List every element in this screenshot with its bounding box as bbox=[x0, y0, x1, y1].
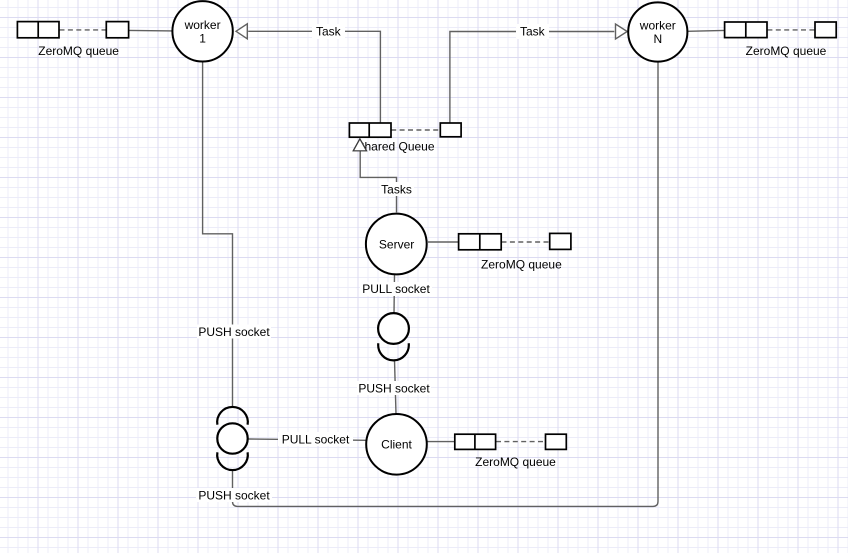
svg-text:worker: worker bbox=[184, 18, 221, 32]
svg-text:ZeroMQ queue: ZeroMQ queue bbox=[38, 44, 119, 58]
svg-text:1: 1 bbox=[199, 31, 206, 45]
svg-text:worker: worker bbox=[639, 19, 676, 33]
svg-text:ZeroMQ queue: ZeroMQ queue bbox=[475, 455, 556, 469]
svg-text:Server: Server bbox=[379, 237, 414, 251]
svg-text:PUSH socket: PUSH socket bbox=[358, 382, 430, 396]
svg-text:Client: Client bbox=[381, 438, 412, 452]
svg-text:PULL socket: PULL socket bbox=[362, 282, 430, 296]
svg-text:N: N bbox=[653, 32, 662, 46]
svg-text:PUSH socket: PUSH socket bbox=[198, 488, 270, 502]
svg-text:PULL socket: PULL socket bbox=[282, 432, 350, 446]
svg-text:ZeroMQ queue: ZeroMQ queue bbox=[746, 44, 827, 58]
svg-text:Task: Task bbox=[316, 25, 342, 39]
svg-text:ZeroMQ queue: ZeroMQ queue bbox=[481, 257, 562, 271]
svg-text:PUSH socket: PUSH socket bbox=[198, 325, 270, 339]
svg-text:Shared Queue: Shared Queue bbox=[356, 140, 434, 154]
svg-text:Task: Task bbox=[520, 25, 546, 39]
svg-text:Tasks: Tasks bbox=[381, 182, 412, 196]
